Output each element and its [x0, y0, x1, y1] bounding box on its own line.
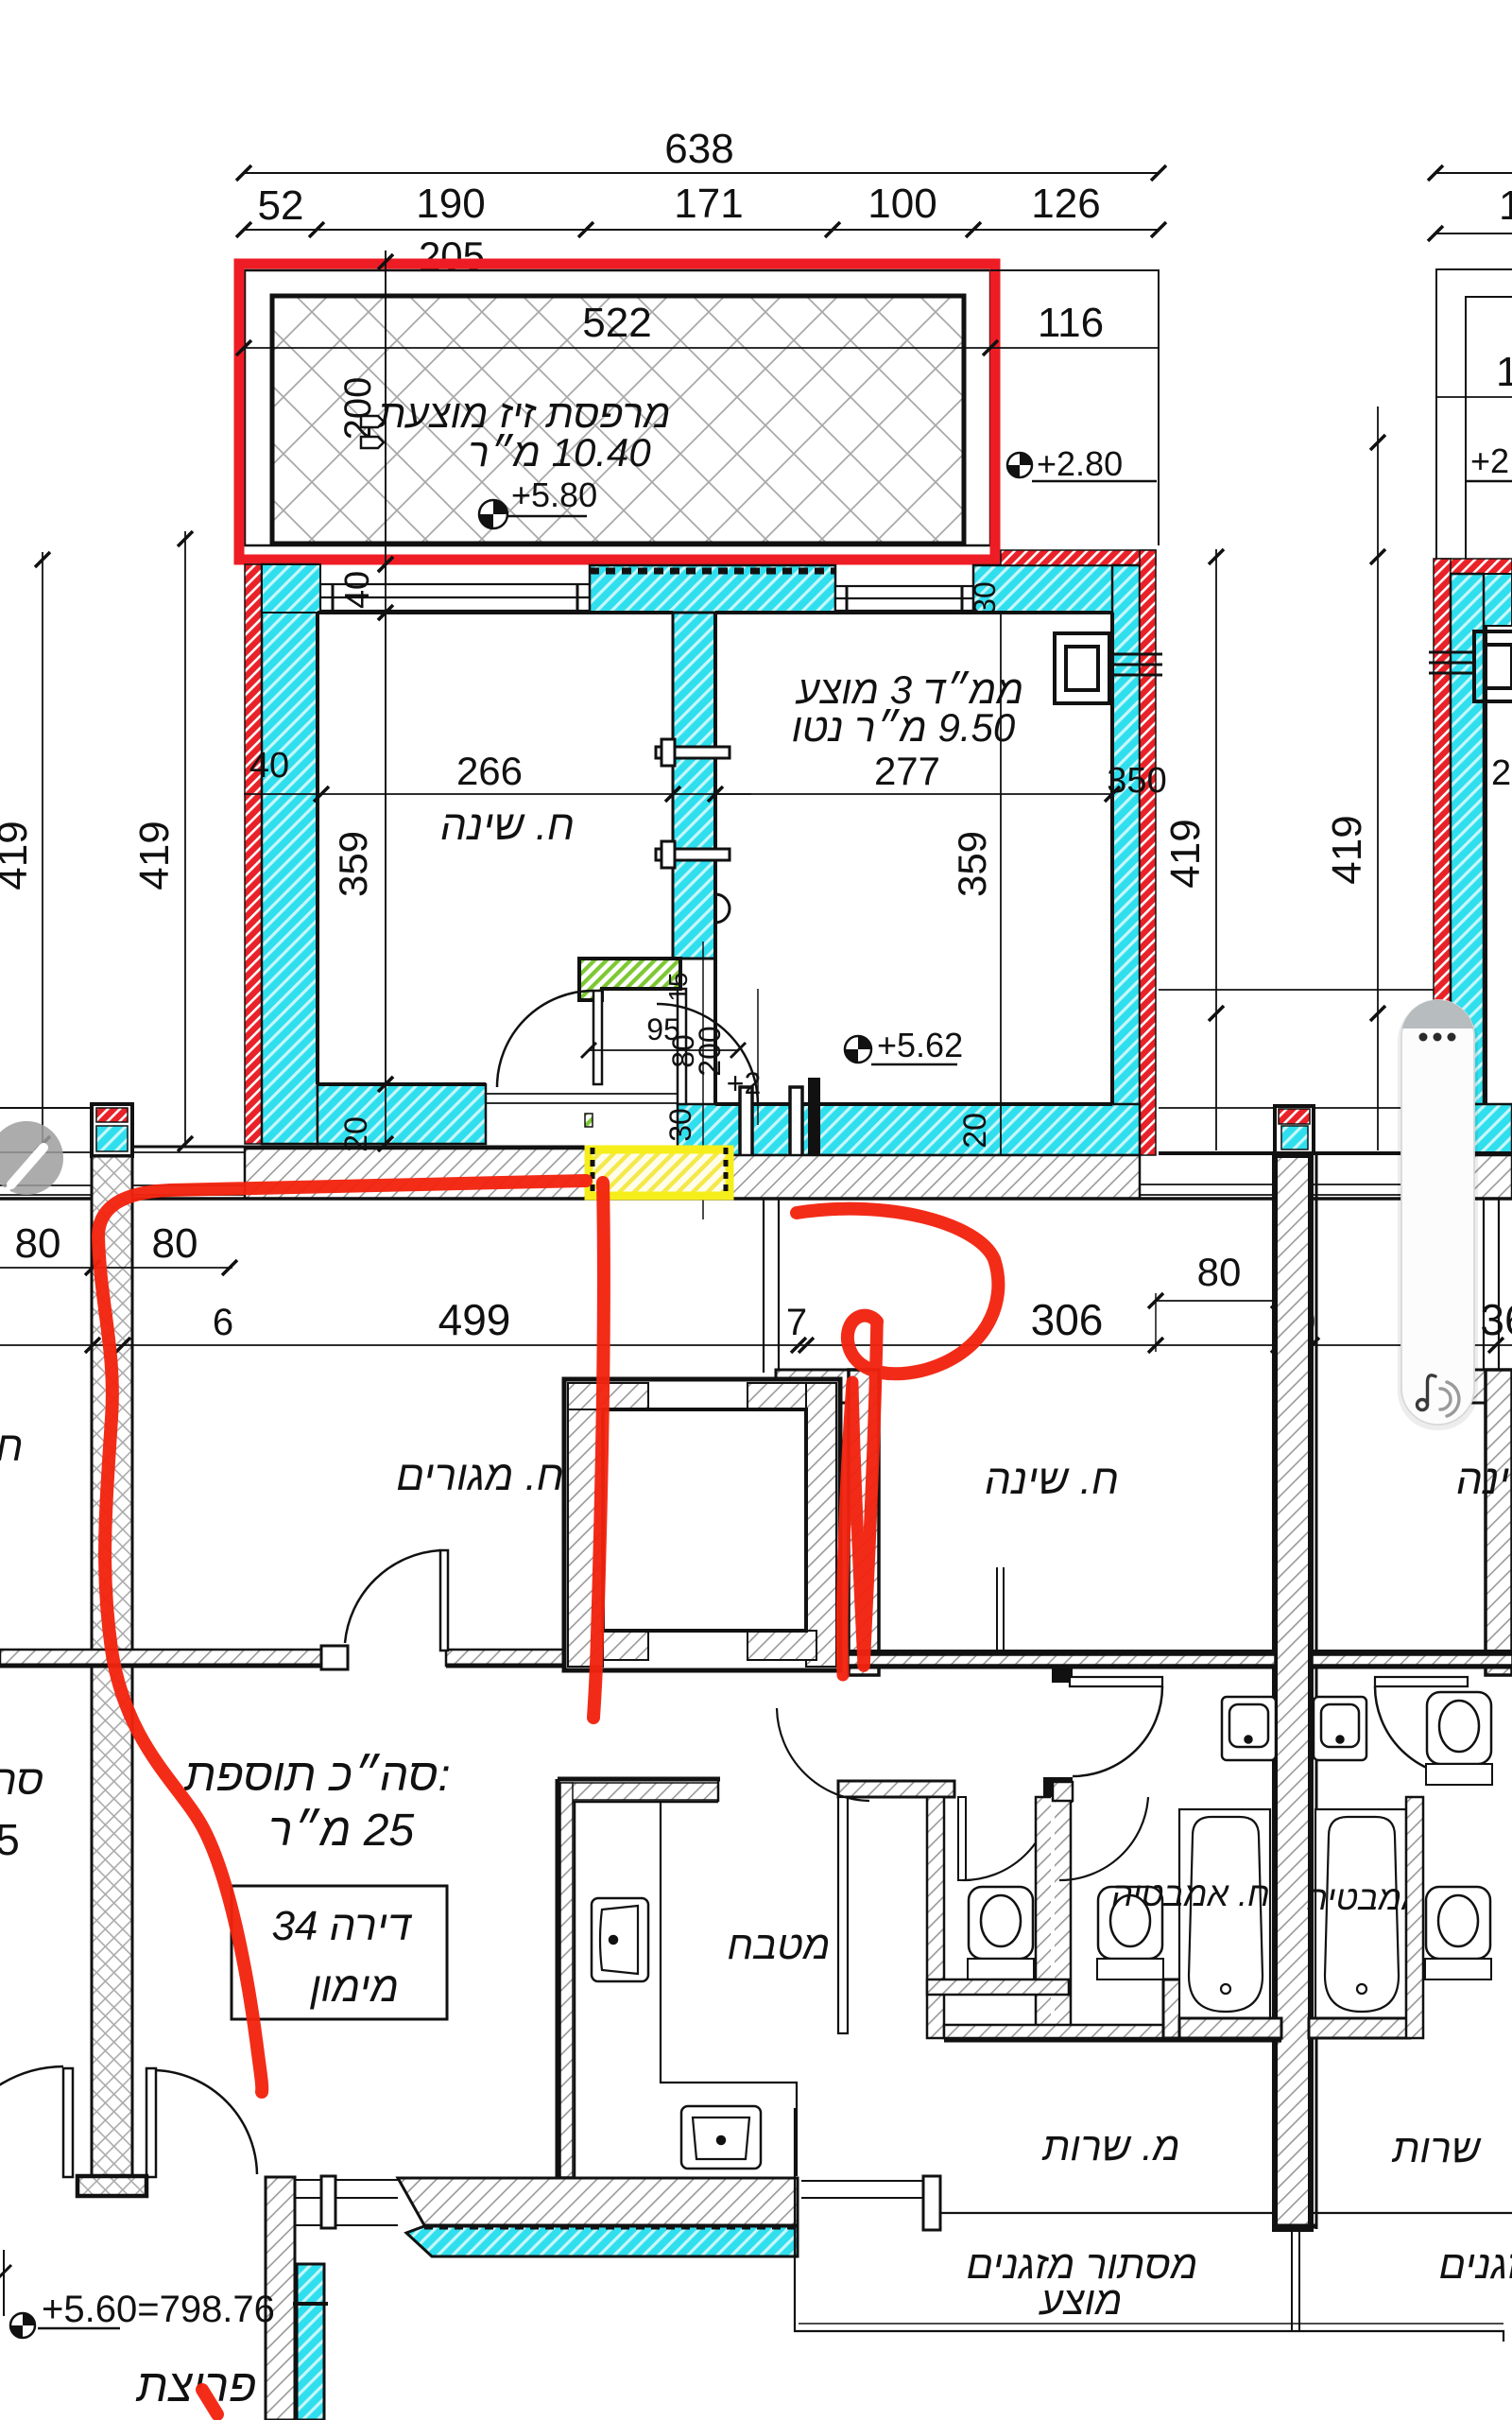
- svg-text:25: 25: [1491, 753, 1512, 793]
- svg-text:25 מ״ר: 25 מ״ר: [268, 1806, 415, 1856]
- 116 outline box right of balcony: [990, 270, 1159, 545]
- entry arcs: [0, 2066, 63, 2129]
- svg-text:522: 522: [582, 300, 651, 346]
- red strip along top right: [1001, 550, 1156, 565]
- vertical dim lines middle gap: [1159, 406, 1434, 1150]
- svg-text:80: 80: [15, 1220, 61, 1267]
- bathtub 1: [1179, 1809, 1270, 2020]
- right unit wall corner red: [1438, 559, 1512, 574]
- svg-text:מ. שרות: מ. שרות: [1041, 2124, 1179, 2169]
- wall between WCs: [1036, 1797, 1071, 2038]
- window lines left of band: [295, 2180, 398, 2225]
- kitchen sink 2: [681, 2106, 761, 2169]
- right unit bottom wall cyan + red: [1434, 1104, 1451, 1155]
- lower-left unit bay window pieces: [764, 1200, 1499, 1373]
- svg-text:40: 40: [337, 571, 376, 609]
- entry door frames: [63, 2068, 73, 2177]
- living room door leaf + arc: [440, 1550, 448, 1651]
- cyan pier right (red+cyan): [1275, 1106, 1314, 1153]
- left wall cyan: [262, 564, 318, 1144]
- kitchen counter: [661, 1802, 797, 2176]
- svg-text:סה: סה: [0, 1757, 43, 1804]
- window lines right 1206-1283: [1140, 1184, 1455, 1195]
- dim 266 bedroom: [244, 793, 751, 795]
- redraw dim chain over walls: [385, 251, 387, 1147]
- svg-text:מרפסת זיז מוצעת: מרפסת זיז מוצעת: [377, 391, 670, 436]
- party wall between units: [1275, 1155, 1311, 2229]
- svg-text:100: 100: [868, 181, 936, 227]
- left top block (red+cyan): [92, 1104, 132, 1156]
- WC1 left wall: [927, 1797, 944, 2038]
- svg-text:190: 190: [416, 181, 485, 227]
- svg-text:+2: +2: [727, 1066, 761, 1100]
- green sliver lower: [585, 1114, 593, 1127]
- right unit MAMAD window: [1429, 631, 1512, 701]
- svg-text:499: 499: [438, 1295, 511, 1344]
- lower bedroom bottom wall: [849, 1650, 1275, 1655]
- right unit window wall: [1486, 1370, 1512, 1675]
- level marker +5.62: [845, 1026, 963, 1064]
- safe room door frames: [740, 1087, 802, 1168]
- svg-text:30: 30: [968, 581, 1002, 615]
- right unit WC wall: [1406, 1797, 1423, 2038]
- right unit top dim stubs: [1428, 165, 1512, 241]
- lower bedroom door: horizontal leaf + arc: [1052, 1668, 1073, 1683]
- left lower vertical wall + cyan strip: [266, 2177, 295, 2420]
- svg-text:419: 419: [1324, 815, 1370, 884]
- svg-text:+2.8: +2.8: [1470, 441, 1512, 480]
- partition bedroom/safe room: [673, 613, 715, 959]
- svg-text:+2.80: +2.80: [1037, 444, 1123, 483]
- balcony thin outline: [245, 270, 990, 545]
- svg-text:15: 15: [663, 972, 693, 1001]
- svg-text:מזגנים: מזגנים: [1439, 2242, 1512, 2287]
- svg-text:359: 359: [950, 831, 994, 897]
- window W1 top wall: [320, 584, 590, 611]
- pier between windows cyan: [590, 565, 835, 613]
- music note icon: [1417, 1375, 1436, 1410]
- corridor left thin wall: [838, 1797, 848, 2033]
- left wall (existing, crosshatch): [92, 1156, 132, 2177]
- level marker +2.80: [1007, 444, 1157, 483]
- svg-text:52: 52: [258, 182, 304, 229]
- svg-text:200: 200: [693, 1026, 727, 1076]
- sinks flanking party wall: [1222, 1697, 1366, 1760]
- right unit balcony outline: [1436, 269, 1512, 559]
- svg-text:277: 277: [874, 749, 940, 793]
- yellow highlight: [589, 1149, 730, 1196]
- AC screen outline: [795, 2108, 1503, 2342]
- band border lines: [92, 1146, 586, 1149]
- right unit toilets: [1425, 1692, 1492, 1979]
- threshold lines in openings: [486, 1093, 678, 1095]
- svg-text:7: 7: [786, 1302, 807, 1343]
- stair/elevator shaft: [564, 1379, 840, 1670]
- vertical ext line x=1059: [1000, 613, 1002, 1163]
- green hatch lintel: [579, 959, 680, 1000]
- small window glyphs on balcony edge: [361, 416, 384, 448]
- svg-text:6: 6: [213, 1302, 233, 1343]
- toilet 2: [1097, 1887, 1163, 1979]
- elevation +5.60: [10, 2289, 275, 2338]
- small dash bottom left: [202, 2390, 217, 2414]
- svg-text:ח. מגורים: ח. מגורים: [396, 1453, 564, 1499]
- bottom band cyan: [406, 2226, 798, 2256]
- window W2: [835, 586, 973, 611]
- bedroom bottom wall cyan: [318, 1084, 486, 1144]
- demolition wall (red-scribbled): [849, 1370, 879, 1675]
- toilet 1: [968, 1887, 1034, 1979]
- svg-text:מימון: מימון: [309, 1964, 399, 2011]
- entry base block: [77, 2176, 146, 2196]
- corridor stub wall: [838, 1781, 954, 1797]
- svg-text:+5.60=798.76: +5.60=798.76: [42, 2289, 275, 2330]
- level marker +5.80: [479, 475, 597, 528]
- partition jamb symbols: [656, 739, 730, 923]
- svg-text:11: 11: [1496, 349, 1512, 395]
- bathtub 2: [1315, 1809, 1406, 2020]
- svg-text:80: 80: [152, 1220, 198, 1267]
- kitchen left wall: [556, 1779, 560, 2177]
- top wall left corner cyan: [262, 564, 320, 613]
- svg-text:ח. שינה: ח. שינה: [440, 803, 575, 849]
- svg-text:12: 12: [1499, 182, 1512, 229]
- black bar right of safe door: [808, 1078, 820, 1165]
- bedroom interior edges: [318, 613, 1112, 1104]
- dim 116: [990, 347, 1159, 349]
- svg-text:9.50 מ״ר נטו: 9.50 מ״ר נטו: [792, 705, 1016, 750]
- svg-text:266: 266: [456, 749, 523, 793]
- closet partition line in bedroom: [996, 1567, 998, 1650]
- safe room bottom wall cyan: [678, 1104, 1140, 1155]
- svg-text:10.40 מ״ר: 10.40 מ״ר: [468, 430, 651, 475]
- svg-text:דירה 34: דירה 34: [271, 1903, 413, 1949]
- svg-text:359: 359: [331, 831, 375, 897]
- svg-text:126: 126: [1031, 181, 1100, 227]
- dim chain 52 190 171 100 126: [236, 222, 1166, 237]
- svg-text:419: 419: [131, 821, 178, 890]
- MAMAD window symbol right wall: [1055, 633, 1162, 703]
- safe room right wall cyan: [1112, 565, 1140, 1155]
- dim line 638: [236, 165, 1166, 181]
- svg-text:40: 40: [249, 746, 289, 786]
- dim line 499 / 306 / 20: [0, 1344, 1512, 1346]
- svg-text:סה״כ תוספת:: סה״כ תוספת:: [183, 1751, 450, 1801]
- window lines left of unit: [0, 1152, 245, 1195]
- right unit door mirrored: [1375, 1677, 1468, 1686]
- stroke C: loop + down strokes: [797, 1209, 998, 1374]
- vertical dim chain at x=408: [378, 251, 393, 1151]
- WC bottom walls: [927, 1979, 1069, 1995]
- right unit wall cyan: [1451, 574, 1512, 626]
- safe room top wall cyan: [973, 565, 1140, 613]
- hallway lower wall piece: [678, 989, 686, 1104]
- svg-text:419: 419: [1162, 819, 1209, 888]
- dim 522: [244, 347, 990, 349]
- svg-text:419: 419: [0, 821, 36, 890]
- band hatch segments: [245, 1149, 586, 1199]
- svg-text:638: 638: [664, 126, 733, 172]
- safe room right wall red outer strip: [1140, 550, 1156, 1155]
- corridor door arc: [777, 1708, 869, 1801]
- dim 277 safe room: [715, 793, 1112, 795]
- svg-text:116: 116: [1038, 300, 1104, 346]
- stroke B: vertical through yellow: [593, 1183, 604, 1718]
- vertical dim lines left side: [35, 531, 193, 1151]
- svg-text:350: 350: [1107, 761, 1166, 801]
- svg-text:+5.80: +5.80: [511, 475, 597, 514]
- hallway small dims: [589, 1049, 738, 1051]
- svg-text:פריצת: פריצת: [136, 2361, 257, 2411]
- svg-text:200: 200: [337, 377, 379, 441]
- kitchen top wall: [558, 1777, 720, 1782]
- hallway door arc: [657, 1004, 758, 1105]
- bedroom door leaf + arc: [593, 991, 602, 1084]
- svg-text:ח: ח: [0, 1424, 23, 1470]
- svg-text:306: 306: [1031, 1295, 1104, 1344]
- window right of cyan band: [801, 2181, 923, 2198]
- svg-text:80: 80: [1197, 1250, 1242, 1294]
- svg-text:מוצע: מוצע: [1038, 2278, 1122, 2323]
- kitchen sink 1: [592, 1898, 648, 1981]
- svg-text:30: 30: [663, 1108, 697, 1142]
- svg-text:20: 20: [338, 1116, 374, 1152]
- svg-text:171: 171: [674, 181, 743, 227]
- svg-text:שרות: שרות: [1391, 2126, 1481, 2170]
- svg-text:36: 36: [1480, 1295, 1512, 1344]
- living room bottom wall: [0, 1646, 565, 1669]
- svg-text:+5.62: +5.62: [877, 1026, 963, 1064]
- apartment box: [232, 1886, 447, 2019]
- balcony hatch area: [272, 296, 964, 544]
- WC2 door arc: [1059, 1797, 1148, 1880]
- window sill stubs: [776, 1370, 849, 1403]
- svg-text:ח. שינה: ח. שינה: [1456, 1457, 1512, 1503]
- svg-text:20: 20: [957, 1113, 993, 1149]
- svg-text:ח. שינה: ח. שינה: [985, 1457, 1119, 1503]
- svg-text:5: 5: [0, 1815, 20, 1864]
- red highlight rectangle: [239, 264, 995, 560]
- WC1 door: [958, 1797, 966, 1880]
- left wall red outer strip: [245, 564, 262, 1144]
- stroke A+D: horizontal then down left wall: [98, 1181, 586, 2092]
- svg-text:מטבח: מטבח: [727, 1923, 830, 1967]
- svg-text:ח. אמבטיה: ח. אמבטיה: [1111, 1875, 1270, 1913]
- bottom band gray: [398, 2178, 798, 2225]
